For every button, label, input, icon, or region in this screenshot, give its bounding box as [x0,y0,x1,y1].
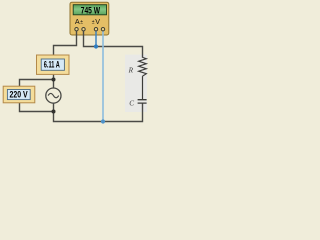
svg-text:V: V [95,17,100,26]
svg-text:6.11 A: 6.11 A [44,60,60,70]
wire from wattmeter terminal 1 (A) to ammeter top [54,30,78,55]
svg-text:745 W: 745 W [81,5,101,16]
subcircuit panel behind R and C [125,55,147,112]
wire from wattmeter terminal 3 to top rail junction [95,30,97,47]
capacitor C [138,100,147,103]
voltmeter probe reading 220 V [3,86,35,103]
wire bottom rail from AC source bottom to capacitor bottom [53,103,143,122]
wattmeter terminal labels A ± and ± V [75,17,100,26]
junction node B (source bottom / 220V probe / bottom rail) [52,110,56,114]
wire from ammeter bottom to AC source top [53,74,55,88]
resistor R [139,57,147,76]
wattmeter display reading 745 W [73,5,106,17]
svg-text:220 V: 220 V [10,90,29,100]
svg-text:±: ± [80,20,83,26]
junction node on top rail (voltage coil +) [94,44,98,48]
svg-text:A: A [75,17,80,26]
svg-text:C: C [129,99,134,107]
ammeter probe reading 6.11 A [37,55,70,74]
wattmeter terminal pins 1-4 [75,28,105,31]
wire from 220 V probe bottom to node B [19,103,54,112]
wattmeter body [70,2,109,35]
junction node on bottom rail (voltage coil -) [101,119,105,123]
wire top rail from wattmeter terminal 2 to resistor top [83,30,143,58]
resistor lead to capacitor [142,76,144,99]
svg-text:R: R [128,66,134,74]
wire from wattmeter terminal 4 to bottom rail junction [102,30,104,122]
wire from node A to 220 V probe top [20,79,54,87]
AC voltage source V1 [46,88,61,103]
junction node A (ammeter / 220V probe / source top) [52,78,56,82]
